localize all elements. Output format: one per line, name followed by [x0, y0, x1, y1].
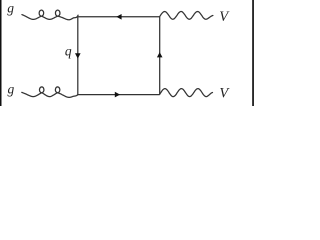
quark propagator: bottom edge of box: [78, 94, 160, 96]
svg-text:q: q: [65, 44, 72, 59]
gluon g1 (incoming top-left): [22, 10, 78, 20]
quark propagator: left edge of box: [77, 17, 79, 95]
arrow on top edge (pointing left): [116, 14, 121, 20]
photon V1 (outgoing top-right): [160, 12, 213, 20]
svg-text:V: V: [219, 9, 230, 25]
svg-text:g: g: [7, 0, 14, 15]
right page rule: [252, 0, 254, 106]
gluon g2 (incoming bottom-left): [22, 87, 78, 98]
left page rule: [0, 0, 2, 106]
svg-text:V: V: [219, 86, 230, 102]
quark propagator: top edge of box: [78, 16, 160, 18]
svg-text:g: g: [8, 81, 15, 96]
arrow on bottom edge (pointing right): [115, 92, 120, 98]
arrow on right edge (pointing up): [157, 52, 163, 57]
photon V2 (outgoing bottom-right): [160, 89, 213, 97]
quark propagator: right edge of box: [159, 17, 161, 95]
arrow on left edge (pointing down): [75, 53, 81, 58]
